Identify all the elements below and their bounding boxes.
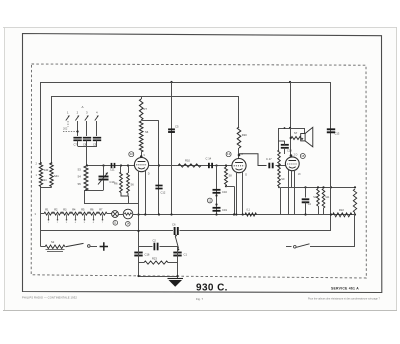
svg-text:C 14: C 14 [206,157,212,161]
svg-text:C11: C11 [110,168,115,172]
svg-text:930 C.: 930 C. [196,283,228,294]
wire antenna 3 [86,121,88,136]
capacitor C10 variable [103,166,105,176]
capacitor C13 [327,128,335,130]
wire grid row right [120,164,122,166]
wire coil join [41,187,52,189]
svg-text:PHILIPS RADIO — CONTINENTALE 1: PHILIPS RADIO — CONTINENTALE 1932 [22,295,77,299]
svg-text:C1: C1 [184,253,188,257]
wire C5 column [171,82,173,215]
wire supply rail top [281,187,355,189]
svg-text:R6: R6 [114,182,118,186]
wire left vertical 1 [40,82,42,163]
svg-text:D: D [148,172,150,176]
lamp L1 label 11 [113,221,118,226]
wire C12 column [158,166,160,215]
wire left vertical 2 [51,96,53,163]
wire plate2 row [239,154,267,166]
wire top bus 2 [52,96,239,98]
capacitor C19 output [281,144,289,146]
resistor R7 [141,96,143,99]
lamp L2 barretter [123,209,133,219]
svg-text:S4: S4 [78,175,82,179]
svg-text:C19: C19 [222,208,227,212]
coil S7 [291,137,303,140]
wire S8 bottom [226,185,228,187]
resistor R10 [178,164,201,167]
wire C16 column [216,166,218,215]
coil S3 S4 S5 [84,166,88,190]
wire right drop [354,213,356,247]
wire plate1 row [149,165,232,167]
tube V3 legs [288,170,290,215]
svg-text:S7: S7 [294,131,298,135]
svg-text:S3: S3 [78,168,82,172]
wire cathode row [84,203,139,205]
svg-text:R23: R23 [152,257,157,261]
capacitor C5 [168,128,175,130]
svg-text:S41: S41 [54,174,59,178]
node bus1-C5 [170,81,172,83]
svg-text:S11: S11 [325,196,330,199]
tube V2 top pin [238,148,240,159]
switch S2 pickup [41,246,45,248]
wire output vertical [290,82,292,156]
wire bottom loop [138,247,140,277]
svg-text:R10: R10 [185,159,190,163]
resistor R20 [238,96,240,127]
wire grid row left [86,165,135,167]
svg-text:13: 13 [227,152,231,156]
capacitor C19b [215,203,217,205]
capacitor C6 [174,227,176,235]
svg-text:10: 10 [130,152,134,156]
tube V3 [285,157,299,171]
svg-text:R20: R20 [242,133,247,137]
capacitor C12 [155,185,162,187]
coil S8 [226,166,228,168]
svg-text:2 D: 2 D [294,154,298,157]
svg-text:S2: S2 [51,240,55,244]
node bus1-output [289,81,291,83]
lamp L1 [112,211,119,218]
capacitor C4 [305,187,307,197]
coil S41 [50,163,53,187]
wire right vertical x331 [330,82,332,231]
outer solid border [23,34,382,293]
lamp L2 label 14 [126,222,131,227]
capacitor C17 [268,163,270,169]
tube V3 top pin [290,154,293,157]
page edge lines [3,27,397,29]
svg-text:A: A [82,105,84,109]
capacitor C7 [73,137,81,139]
wire coil bottom loop [121,193,128,197]
tube V3 label 15 [300,154,305,159]
capacitor C2 [153,243,155,251]
coil S6a [128,166,130,174]
svg-text:S8: S8 [229,174,233,178]
wire cathode rail [133,214,355,216]
svg-text:C.17: C.17 [266,157,272,161]
svg-text:C13: C13 [335,132,340,136]
wire tuning bottom loop [84,190,104,192]
wire grid3 [276,165,286,167]
wire lamp out [133,214,139,216]
coil S9 grid leak [278,150,281,187]
coil S40 [39,163,42,187]
capacitor C11 [111,163,113,168]
resistor R24 vertical [353,189,356,213]
resistor chain R1-R7 [41,213,44,215]
svg-text:C6: C6 [172,223,176,227]
wire main bus [41,230,173,232]
svg-text:C12: C12 [161,191,166,195]
svg-text:Pour les valeurs des résistanc: Pour les valeurs des résistances et des … [308,297,380,300]
svg-text:S6: S6 [131,183,135,187]
tube V1 label 10 [129,152,134,157]
svg-text:SERVICE 461 A: SERVICE 461 A [331,286,359,290]
svg-text:C16: C16 [145,253,150,257]
coil S11 [322,189,325,209]
coil R6 [120,166,122,173]
resistor R21 [245,213,257,216]
wire speaker rail [278,128,304,130]
wire left vertical 1 lower [40,187,42,247]
svg-text:D: D [245,173,247,177]
svg-text:S10: S10 [313,196,318,199]
tube V2 label 13 [226,152,231,157]
resistor R23 [139,262,145,264]
capacitor C16 [213,189,221,191]
capacitor C9 [93,137,101,139]
svg-text:15: 15 [301,154,305,158]
wire antenna down [86,146,88,166]
switch S1 [175,235,177,237]
svg-text:C7: C7 [74,143,78,147]
wire lamp link [118,214,123,216]
svg-text:R22: R22 [339,208,344,212]
coil S10 [317,189,320,207]
tube V1 [134,158,148,172]
tube V1 top pin [141,152,143,158]
svg-text:Fig. 7: Fig. 7 [196,297,203,301]
tube V2 [232,159,246,173]
capacitor C14 [208,163,210,168]
svg-text:R7: R7 [144,107,148,111]
tube V2 legs [236,172,238,215]
svg-text:202: 202 [63,127,68,131]
capacitor C16b [134,252,142,254]
capacitor C8 [83,137,91,139]
label 12 circled [207,198,212,203]
capacitor C1 [173,252,181,254]
switch mains [286,246,292,248]
wire C19 branch [278,128,280,150]
svg-text:C5: C5 [175,125,179,129]
svg-text:S6: S6 [145,130,149,134]
wire antenna 4 [96,121,98,136]
svg-text:S5: S5 [78,182,82,186]
wire cap join [77,141,79,147]
svg-text:C16: C16 [222,190,227,194]
resistor R22 [333,213,353,217]
ground [168,278,184,280]
coil S6 [139,121,143,152]
speaker [304,128,306,134]
wire C2 row [139,246,153,248]
svg-text:S40: S40 [44,168,49,172]
wire top bus 1 [41,82,331,84]
svg-text:C2: C2 [153,239,157,243]
wire antenna 2 [77,121,79,136]
svg-text:C19: C19 [287,149,292,153]
svg-text:12: 12 [208,198,211,202]
wire R7 tap [141,120,158,122]
chain taps [48,215,50,220]
pickup plus terminal [100,242,108,250]
dashed border [31,64,366,278]
tube V1 legs [138,171,140,276]
